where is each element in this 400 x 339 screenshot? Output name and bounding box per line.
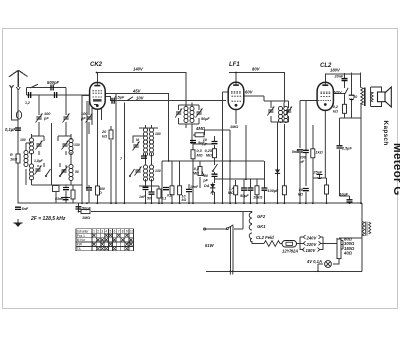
svg-text:pF: pF — [202, 179, 208, 183]
svg-text:MΩ: MΩ — [197, 154, 203, 158]
svg-text:63nF: 63nF — [55, 197, 64, 201]
svg-text:3: 3 — [101, 229, 103, 233]
svg-text:kΩ: kΩ — [333, 110, 338, 114]
svg-text:180: 180 — [155, 132, 161, 136]
svg-text:5: 5 — [110, 229, 112, 233]
svg-text:0,5: 0,5 — [194, 167, 200, 171]
svg-text:Pos 1: Pos 1 — [77, 234, 85, 238]
svg-text:100: 100 — [81, 112, 88, 116]
svg-text:kΩ: kΩ — [102, 135, 107, 139]
svg-text:2: 2 — [97, 229, 99, 233]
svg-text:0,1: 0,1 — [162, 197, 167, 201]
svg-text:0,5µF: 0,5µF — [115, 96, 125, 100]
svg-text:CK2: CK2 — [90, 62, 103, 68]
svg-text:1nF: 1nF — [139, 195, 146, 199]
svg-text:45V: 45V — [132, 89, 142, 94]
svg-text:4V 0,1A: 4V 0,1A — [306, 259, 322, 264]
svg-text:180: 180 — [20, 138, 26, 142]
svg-text:1,2: 1,2 — [25, 101, 30, 105]
svg-text:60V: 60V — [245, 90, 254, 95]
svg-text:5nF: 5nF — [292, 150, 299, 154]
svg-text:4MΩ: 4MΩ — [195, 126, 206, 131]
svg-text:MΩ: MΩ — [193, 172, 199, 176]
svg-text:80V: 80V — [252, 67, 261, 72]
svg-text:10nF: 10nF — [190, 185, 199, 189]
svg-text:GF2: GF2 — [257, 214, 266, 219]
svg-text:DA: DA — [204, 184, 210, 188]
svg-text:10V: 10V — [136, 96, 145, 101]
svg-text:20: 20 — [101, 130, 107, 134]
svg-text:MΩ: MΩ — [228, 191, 234, 195]
svg-text:50µF: 50µF — [201, 117, 210, 121]
svg-text:MΩ: MΩ — [206, 154, 212, 158]
svg-text:LF1: LF1 — [229, 62, 240, 68]
svg-text:kΩ: kΩ — [182, 198, 187, 202]
svg-text:140V: 140V — [133, 67, 144, 72]
svg-text:51W: 51W — [205, 243, 215, 248]
svg-text:220V: 220V — [306, 242, 318, 247]
svg-text:kΩ: kΩ — [298, 193, 303, 197]
svg-text:9: 9 — [126, 229, 128, 233]
svg-text:50: 50 — [147, 197, 151, 201]
svg-text:Kapsch: Kapsch — [382, 121, 389, 146]
svg-text:1kΩ: 1kΩ — [10, 158, 17, 162]
svg-text:12Y/82A: 12Y/82A — [282, 249, 298, 254]
svg-text:1MΩ: 1MΩ — [230, 125, 238, 129]
svg-text:10µF: 10µF — [339, 193, 348, 197]
svg-text:1,4: 1,4 — [229, 187, 235, 191]
svg-text:10: 10 — [130, 229, 134, 233]
svg-text:7: 7 — [118, 229, 120, 233]
svg-text:6: 6 — [114, 229, 116, 233]
svg-text:M: M — [136, 138, 139, 142]
svg-text:200: 200 — [299, 156, 307, 160]
svg-text:R: R — [10, 153, 13, 157]
svg-text:CL2: CL2 — [320, 63, 332, 69]
svg-text:2F = 128,5 kHz: 2F = 128,5 kHz — [30, 216, 66, 222]
svg-text:2,5µF: 2,5µF — [341, 146, 352, 150]
svg-text:0,2: 0,2 — [167, 194, 172, 198]
svg-text:240V: 240V — [306, 236, 318, 241]
svg-text:4: 4 — [105, 229, 107, 233]
svg-text:130: 130 — [155, 169, 161, 173]
svg-text:KW: KW — [77, 243, 82, 247]
svg-text:25µF: 25µF — [313, 171, 323, 175]
svg-text:1kΩ: 1kΩ — [316, 151, 323, 155]
svg-text:CL2 Feld: CL2 Feld — [256, 235, 274, 240]
svg-text:0,2: 0,2 — [333, 105, 339, 109]
svg-text:0,25: 0,25 — [205, 149, 213, 153]
svg-text:Ω: Ω — [98, 191, 102, 195]
svg-text:50pF: 50pF — [82, 207, 92, 211]
svg-text:NSV: NSV — [334, 91, 342, 95]
svg-text:pF: pF — [43, 117, 49, 121]
svg-text:20nF: 20nF — [334, 75, 345, 79]
svg-text:150V: 150V — [306, 248, 317, 253]
svg-text:pF: pF — [80, 117, 86, 121]
svg-text:50µF: 50µF — [240, 194, 249, 198]
svg-text:0,3: 0,3 — [197, 149, 203, 153]
svg-text:Meteor G: Meteor G — [391, 143, 400, 196]
svg-text:100µF: 100µF — [268, 189, 280, 193]
svg-text:0,1µF: 0,1µF — [5, 127, 16, 132]
svg-text:40Ω: 40Ω — [343, 251, 353, 256]
svg-text:8: 8 — [122, 229, 124, 233]
svg-text:GK1: GK1 — [257, 224, 266, 229]
svg-text:100: 100 — [44, 112, 51, 116]
svg-text:pF: pF — [299, 160, 305, 164]
svg-text:Schalter: Schalter — [77, 229, 90, 233]
svg-text:M Kur: M Kur — [77, 238, 86, 242]
svg-text:nF: nF — [202, 143, 207, 147]
svg-text:130: 130 — [74, 143, 80, 147]
svg-text:1MΩ: 1MΩ — [82, 216, 90, 220]
svg-text:5nF: 5nF — [22, 207, 29, 211]
svg-text:180V: 180V — [330, 68, 341, 73]
svg-text:10kΩ: 10kΩ — [253, 196, 262, 200]
svg-text:1: 1 — [93, 229, 95, 233]
svg-text:1,8µF: 1,8µF — [34, 159, 44, 163]
svg-text:50: 50 — [75, 170, 79, 174]
svg-text:500pF: 500pF — [47, 80, 60, 85]
